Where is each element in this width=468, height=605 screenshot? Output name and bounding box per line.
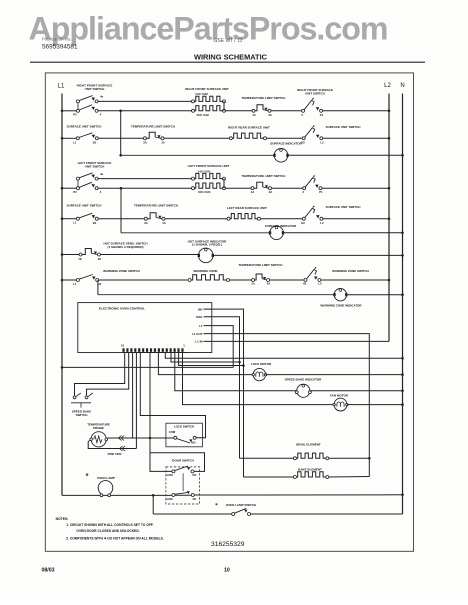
junction row5 L2	[388, 217, 391, 220]
svg-text:TEMPERATURE LIMIT SWITCH: TEMPERATURE LIMIT SWITCH	[131, 125, 175, 129]
svg-text:H3: H3	[303, 281, 307, 285]
svg-text:L2: L2	[384, 83, 391, 89]
wire row4 upper branch to element	[98, 178, 193, 180]
junction row1 L2	[388, 110, 391, 113]
svg-text:WARMING ZONE: WARMING ZONE	[194, 269, 218, 273]
svg-text:TEMPERATURE LIMIT SWITCH: TEMPERATURE LIMIT SWITCH	[134, 203, 178, 207]
svg-text:NOTES:: NOTES:	[56, 517, 69, 521]
svg-text:08/03: 08/03	[42, 568, 55, 574]
junction bake net	[242, 364, 245, 367]
wire pin to speed bake switch right	[87, 352, 129, 396]
svg-text:GSE WT7 CI: GSE WT7 CI	[214, 38, 243, 44]
switch right front surface line switch (3/P1)	[301, 98, 323, 117]
svg-text:B1: B1	[93, 141, 97, 145]
wire door switch feed drop	[149, 438, 151, 453]
svg-text:1. CIRCUIT SHOWN WITH ALL CON: 1. CIRCUIT SHOWN WITH ALL CONTROLS SET T…	[66, 523, 153, 527]
svg-text:TEMPERATURE LIMIT SWITCH: TEMPERATURE LIMIT SWITCH	[242, 174, 286, 178]
svg-text:L1 IN: L1 IN	[195, 340, 202, 344]
svg-text:SURFACE UNIT SWITCH: SURFACE UNIT SWITCH	[67, 125, 102, 129]
svg-text:1800 OHM: 1800 OHM	[196, 113, 209, 117]
wire row4 to L2 bus	[322, 187, 389, 189]
wire row5 from L1	[62, 218, 76, 220]
wire row8 to L2 bus	[321, 279, 389, 281]
switch hot surface sens switch (1E/2E)	[78, 249, 101, 261]
svg-text:PRB CON: PRB CON	[108, 452, 122, 456]
wire indicator row6 to N bus	[283, 232, 402, 234]
indicator lamp surface indicator left units	[270, 226, 284, 240]
svg-text:2A: 2A	[143, 141, 147, 145]
wire L1 bus to EOC L1 terminal	[62, 366, 233, 368]
svg-text:10: 10	[224, 568, 230, 574]
wire probe low lead	[88, 440, 136, 448]
border frame	[45, 73, 413, 551]
svg-text:FAN MOTOR: FAN MOTOR	[330, 393, 349, 397]
switch right front surface unit switch (P2/4a/4)	[73, 95, 103, 117]
notes block	[56, 517, 164, 540]
L1 supply bus	[61, 94, 63, 496]
svg-text:SURFACE UNIT SWITCH: SURFACE UNIT SWITCH	[326, 125, 361, 129]
svg-text:LOCK MOTOR: LOCK MOTOR	[251, 362, 272, 366]
wire row2 from L1	[62, 137, 76, 139]
wire temp limit to right switch row1	[271, 110, 302, 112]
svg-text:BRL: BRL	[196, 315, 202, 319]
junction row1 to surface indicator drop	[119, 110, 122, 113]
resistor left front surface unit outer coil	[192, 177, 195, 180]
svg-text:RIGHT REAR SURFACE UNIT: RIGHT REAR SURFACE UNIT	[228, 125, 270, 129]
svg-text:13: 13	[121, 343, 125, 347]
junction L1 row8	[61, 279, 64, 282]
motor lock motor	[253, 368, 265, 380]
wire row1 to temp limit switch	[226, 110, 253, 112]
svg-text:NC: NC	[193, 497, 197, 501]
svg-text:L2: L2	[318, 281, 322, 285]
wire join coils row4	[223, 179, 225, 189]
wire row1 lower from L1 to switch	[62, 110, 78, 112]
label oven lamp switch with asterisk	[215, 502, 256, 506]
wire pin to lock switch NO	[140, 352, 205, 437]
wire probe high lead to lock com line	[108, 437, 174, 439]
wire row1 to L2 bus	[323, 110, 389, 112]
door switch mechanical link	[182, 473, 184, 491]
svg-text:LOCK SWITCH: LOCK SWITCH	[174, 425, 194, 429]
label oven lamp with asterisk	[85, 472, 115, 480]
L2 supply bus	[388, 94, 390, 342]
wire pin to bake net	[179, 352, 244, 365]
connector probe high chevron	[119, 436, 125, 441]
wire oven lamp switch drop	[152, 495, 154, 514]
switch warming zone line switch (H3/L2)	[303, 267, 322, 286]
wire row8 from L1	[62, 279, 76, 281]
svg-text:2A: 2A	[269, 190, 273, 194]
junction row4 L2	[388, 187, 391, 190]
svg-text:4a: 4a	[100, 172, 104, 176]
wire pin to lock switch COM node	[149, 352, 151, 438]
svg-text:2A: 2A	[144, 221, 148, 225]
wire L1 IN terminal from L2 bus	[204, 340, 390, 342]
svg-text:P1: P1	[319, 190, 323, 194]
svg-text:AppliancePartsPros.com: AppliancePartsPros.com	[28, 11, 387, 47]
junction row4 to indicator drop	[120, 187, 123, 190]
wire row1 lower branch to element	[98, 110, 193, 112]
junction lock com node	[149, 437, 152, 440]
wire temp limit to switch row8	[270, 279, 304, 281]
wire indicator row9 left	[98, 294, 334, 296]
indicator lamp speed bake indicator	[295, 384, 311, 397]
module door switch dashed box	[166, 467, 200, 504]
svg-text:1A: 1A	[162, 221, 166, 225]
svg-text:P1: P1	[320, 113, 324, 117]
wire row4 to temp limit	[226, 187, 252, 189]
resistor temperature probe	[90, 432, 108, 447]
svg-text:WIRING SCHEMATIC: WIRING SCHEMATIC	[194, 52, 268, 61]
svg-text:P2: P2	[73, 113, 77, 117]
svg-text:TEMPERATURE LIMIT SWITCH: TEMPERATURE LIMIT SWITCH	[242, 96, 286, 100]
wire lock motor to N bus	[266, 374, 403, 376]
svg-text:L2: L2	[320, 141, 324, 145]
svg-text:SURFACE UNIT SWITCH: SURFACE UNIT SWITCH	[67, 203, 102, 207]
junction fan motor N	[401, 403, 404, 406]
wire L1 terminal to L1 feed drop	[204, 326, 234, 368]
svg-text:(1 SHOWN, 2 REQD.): (1 SHOWN, 2 REQD.)	[192, 243, 222, 247]
svg-text:SURFACE INDICATOR: SURFACE INDICATOR	[270, 141, 302, 145]
svg-text:SURFACE UNIT SWITCH: SURFACE UNIT SWITCH	[326, 205, 361, 209]
junction broil L1 OUT	[368, 457, 371, 460]
N neutral bus	[402, 94, 404, 515]
junction L1 row1	[61, 110, 64, 113]
junction L1 row4	[61, 187, 64, 190]
wire pin to broil net	[171, 352, 240, 362]
wire BRL terminal to broil drop	[204, 317, 240, 459]
svg-text:2A: 2A	[267, 281, 271, 285]
wire bake element right to L1 OUT drop	[329, 476, 370, 479]
wire L1 OUT terminal to element feed	[204, 334, 370, 477]
svg-text:2A: 2A	[268, 113, 272, 117]
wire indicator row3 to N bus	[288, 154, 403, 156]
junction row3 N	[401, 154, 404, 157]
junction speed bake indicator N	[401, 390, 404, 393]
svg-text:L1: L1	[58, 84, 65, 90]
wire oven lamp switch line left	[153, 513, 232, 515]
junction L1 EOC feed	[61, 366, 64, 369]
wire row7 indicator to N bus	[213, 254, 402, 256]
wire indicator row9 to N bus	[347, 294, 403, 296]
resistor right front surface unit outer coil	[192, 100, 195, 103]
indicator lamp surface indicator right units	[274, 149, 288, 163]
svg-text:4a: 4a	[100, 95, 104, 99]
switch surface unit switch row2 (L1/B1)	[73, 133, 98, 145]
svg-text:1E: 1E	[78, 257, 82, 261]
wire pin to speed bake switch left	[75, 352, 125, 396]
module electronic oven control box	[78, 303, 212, 353]
junction L1 row7	[61, 253, 64, 256]
wire row1 upper branch to element	[98, 100, 193, 102]
wire row2 to temp limit	[98, 137, 143, 139]
svg-text:LEFT FRONT SURFACE UNIT: LEFT FRONT SURFACE UNIT	[188, 164, 230, 168]
svg-text:L1: L1	[199, 324, 203, 328]
wire row7 from L1	[62, 254, 79, 256]
resistor left rear surface unit coil	[227, 217, 230, 220]
svg-text:L1: L1	[73, 282, 77, 286]
svg-text:WARMING ZONE SWITCH: WARMING ZONE SWITCH	[332, 269, 369, 273]
switch door switch upper contacts COM NO	[166, 466, 196, 477]
svg-text:COM: COM	[166, 497, 172, 501]
resistor right rear surface unit coil	[229, 137, 232, 140]
switch door switch lower contacts COM NC	[166, 491, 196, 501]
wire row8 to element	[99, 279, 188, 281]
wire door switch top link	[150, 453, 205, 472]
module lock switch box	[166, 423, 203, 447]
wire door NC to N bus	[194, 494, 402, 496]
svg-text:DOOR SWITCH: DOOR SWITCH	[172, 459, 194, 463]
junction row2 L2	[388, 137, 391, 140]
junction L1 row5	[61, 217, 64, 220]
wire com to lamp segment	[175, 494, 191, 496]
svg-text:1A: 1A	[161, 141, 165, 145]
svg-text:L1: L1	[73, 140, 77, 144]
wire bake element left feed	[244, 476, 294, 478]
svg-text:P2: P2	[73, 190, 77, 194]
wire drop row1 to indicator row	[120, 111, 122, 156]
svg-text:OVEN DOOR CLOSED AND UNLOCKED.: OVEN DOOR CLOSED AND UNLOCKED.	[76, 529, 139, 533]
wire pin to N return	[165, 352, 402, 358]
junction row9 N	[401, 293, 404, 296]
svg-text:2400 OHM: 2400 OHM	[198, 169, 211, 173]
svg-text:BAKE ELEMENT: BAKE ELEMENT	[298, 467, 322, 471]
junction L1 row2	[61, 137, 64, 140]
svg-text:N: N	[400, 83, 404, 89]
svg-text:1A: 1A	[251, 281, 255, 285]
svg-text:COM: COM	[169, 430, 176, 434]
junction row7 N	[401, 254, 404, 257]
indicator lamp hot surface indicator	[199, 248, 214, 263]
motor fan motor	[334, 398, 347, 411]
wire temp limit to right switch row4	[272, 187, 303, 189]
wire row5 to element	[165, 218, 227, 220]
switch surface unit switch row5 (L1/B1)	[73, 213, 98, 225]
wire drop warming zone indicator feed	[97, 280, 99, 295]
junction row8 L2	[388, 279, 391, 282]
svg-text:WARMING ZONE INDICATOR: WARMING ZONE INDICATOR	[320, 304, 362, 308]
svg-text:UNIT SWITCH: UNIT SWITCH	[85, 164, 105, 168]
svg-text:NO: NO	[193, 473, 197, 477]
switch speed bake switch	[71, 393, 93, 408]
wire BK terminal to bake drop	[204, 309, 244, 477]
junction row6 N	[401, 232, 404, 235]
wire pin to probe high lead	[132, 352, 134, 438]
svg-text:1A: 1A	[251, 190, 255, 194]
switch surface unit line switch row5 (H2/L2)	[301, 206, 324, 225]
svg-text:H2: H2	[301, 221, 305, 225]
svg-text:2. COMPONENTS WITH ✳ DO NOT: 2. COMPONENTS WITH ✳ DO NOT APPEAR ON AL…	[66, 536, 164, 540]
svg-text:2E: 2E	[98, 257, 102, 261]
svg-text:SWITCH: SWITCH	[76, 413, 88, 417]
switch warming zone switch (L1/H1)	[73, 275, 102, 287]
connector probe low chevron	[120, 446, 126, 451]
svg-text:L1: L1	[73, 221, 77, 225]
wire row8 element to temp limit	[230, 279, 252, 281]
thermal switch temperature limit row1 (1A/2A)	[252, 105, 272, 117]
connector P1 strip pins	[122, 348, 188, 352]
svg-text:H2: H2	[301, 141, 305, 145]
svg-text:SPEED BAKE INDICATOR: SPEED BAKE INDICATOR	[285, 378, 323, 382]
wire drop row4 to indicator row	[120, 188, 122, 233]
svg-text:L1 OUT: L1 OUT	[192, 332, 203, 336]
wire door switch com drop	[150, 453, 172, 472]
junction oven lamp switch tap	[152, 494, 155, 497]
switch oven lamp switch	[232, 508, 251, 515]
wire pin to speed bake indicator	[175, 352, 297, 390]
lamp oven lamp	[98, 481, 113, 497]
thermal switch temperature limit row5 (2A/1A)	[144, 213, 166, 225]
resistor right front surface unit inner coil	[192, 109, 195, 112]
svg-text:PROBE: PROBE	[93, 426, 104, 430]
wire row5 to L2 bus	[323, 218, 389, 220]
wire row2 to element	[164, 137, 229, 139]
switch left front surface line switch (3/P1)	[302, 175, 323, 194]
resistor broil element coil	[293, 457, 296, 460]
wire probe high lead bend	[107, 438, 109, 439]
resistor bake element coil	[293, 476, 296, 479]
svg-text:BROIL ELEMENT: BROIL ELEMENT	[296, 443, 321, 447]
svg-text:316255329: 316255329	[211, 541, 245, 548]
resistor left front surface unit inner coil	[192, 187, 195, 190]
wire lock com node to com contact	[150, 437, 174, 439]
wire oven lamp line from L1	[62, 494, 172, 496]
wire speed bake indicator to N bus	[310, 390, 403, 392]
svg-text:LEFT REAR SURFACE UNIT: LEFT REAR SURFACE UNIT	[227, 206, 267, 210]
svg-text:1A: 1A	[252, 113, 256, 117]
wire indicator row6 left	[121, 232, 270, 234]
svg-text:5695394581: 5695394581	[42, 44, 78, 51]
publication number block	[42, 37, 78, 51]
svg-text:L2: L2	[320, 221, 324, 225]
thermal switch temperature limit row8 (1A/2A)	[251, 274, 270, 285]
svg-text:OVEN LAMP: OVEN LAMP	[97, 476, 115, 480]
switch surface unit line switch row2 (H2/L2)	[301, 125, 324, 144]
thermal switch temperature limit row2 (2A/1A)	[143, 132, 165, 144]
wire row5 element to switch	[261, 218, 303, 220]
wire broil element right to L1 OUT drop	[329, 457, 370, 459]
thermal switch temperature limit row4 (1A/2A)	[251, 182, 273, 194]
wire broil element left feed	[240, 457, 294, 459]
svg-text:(1 SHOWN, 2 REQUIRED): (1 SHOWN, 2 REQUIRED)	[107, 245, 143, 249]
svg-text:TEMPERATURE LIMIT SWITCH: TEMPERATURE LIMIT SWITCH	[239, 263, 283, 267]
wire indicator row3 left	[121, 154, 275, 156]
wire row7 to indicator	[101, 254, 199, 256]
junction drop row3	[119, 154, 122, 157]
wire row2 to L2 bus	[323, 137, 389, 139]
svg-text:RIGHT FRONT SURFACE UNIT: RIGHT FRONT SURFACE UNIT	[185, 87, 229, 91]
wire row2 element to switch	[267, 137, 303, 139]
switch lock switch contacts	[174, 436, 197, 444]
resistor warming zone element coil	[188, 279, 191, 282]
header rule	[30, 61, 425, 63]
wire pin drop joins probe low lead	[135, 438, 137, 449]
svg-text:UNIT SWITCH: UNIT SWITCH	[305, 92, 325, 96]
svg-text:UNIT SWITCH: UNIT SWITCH	[85, 87, 105, 91]
svg-text:COM: COM	[166, 473, 172, 477]
wire row5 to temp limit	[98, 218, 144, 220]
svg-text:B1: B1	[93, 221, 97, 225]
junction pin return N	[401, 357, 404, 360]
wire row4 lower from L1 to switch	[62, 187, 78, 189]
wire pin to probe line second	[135, 352, 137, 438]
junction door NC N	[401, 494, 404, 497]
svg-text:OVEN LAMP SWITCH: OVEN LAMP SWITCH	[226, 503, 256, 507]
indicator lamp warming zone indicator	[334, 289, 346, 301]
junction lock motor N	[401, 373, 404, 376]
junction broil net	[238, 361, 241, 364]
switch left front surface unit switch (P2/4a/4)	[73, 172, 103, 194]
svg-text:1800 OHM: 1800 OHM	[198, 190, 211, 194]
svg-text:2400 OHM: 2400 OHM	[195, 92, 208, 96]
wire fan motor to N bus	[347, 404, 403, 406]
wire oven lamp switch to N bus	[251, 513, 403, 515]
svg-text:Publication No.: Publication No.	[42, 37, 72, 42]
wire join coils row1	[223, 101, 225, 110]
wire row4 lower branch to element	[98, 187, 193, 189]
wire pin to fan motor	[183, 352, 335, 404]
svg-text:WARMING ZONE SWITCH: WARMING ZONE SWITCH	[103, 269, 140, 273]
svg-text:ELECTRONIC OVEN CONTROL: ELECTRONIC OVEN CONTROL	[99, 306, 145, 310]
wire pin to lock motor	[158, 352, 253, 374]
